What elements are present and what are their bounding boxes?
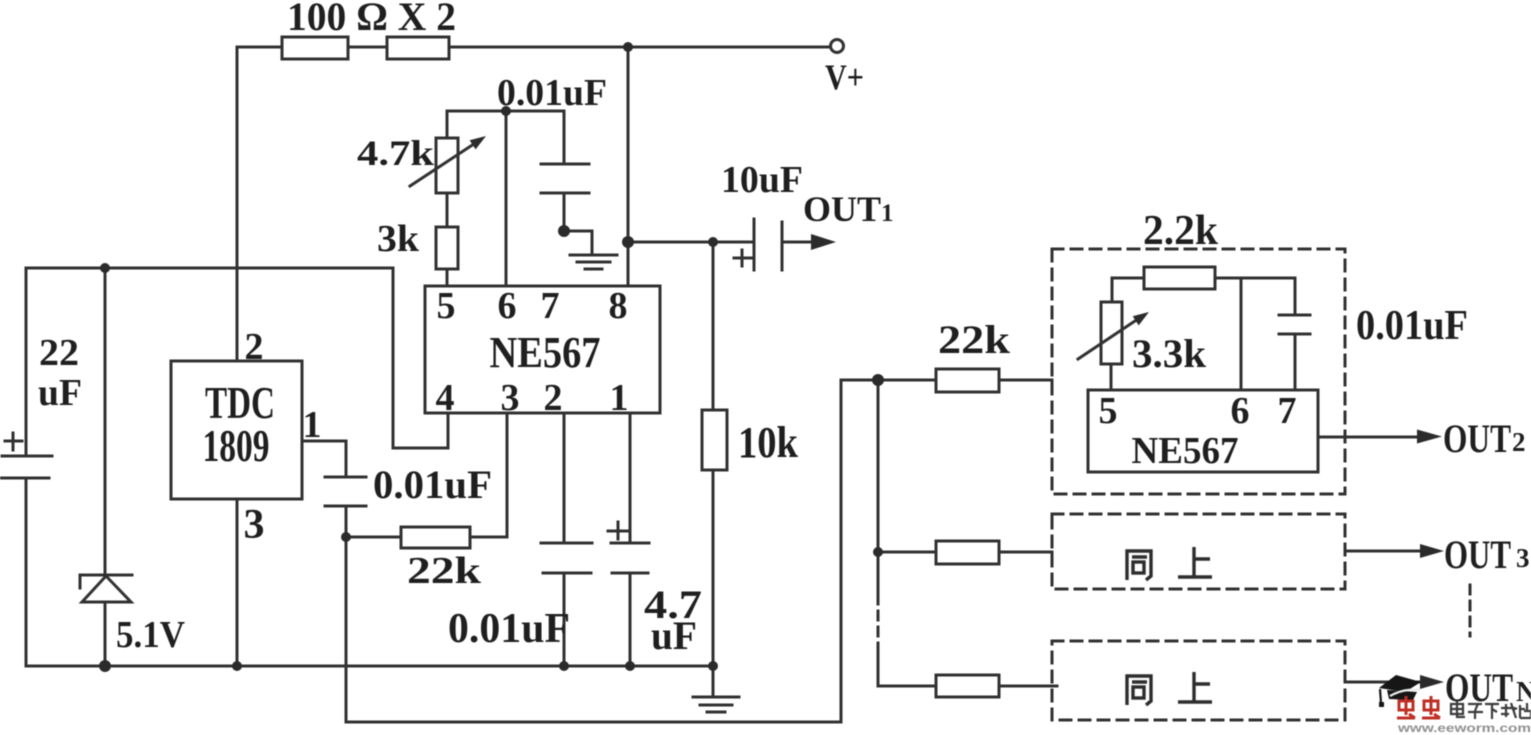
svg-text:1809: 1809 xyxy=(203,420,270,471)
svg-text:3.3k: 3.3k xyxy=(1132,331,1207,376)
svg-text:22: 22 xyxy=(39,332,79,374)
svg-text:10uF: 10uF xyxy=(721,159,803,201)
svg-text:6: 6 xyxy=(1231,390,1250,432)
svg-text:V+: V+ xyxy=(825,57,864,97)
svg-text:4: 4 xyxy=(436,377,455,419)
svg-text:N: N xyxy=(1516,677,1531,708)
svg-text:7: 7 xyxy=(541,285,560,327)
svg-text:22k: 22k xyxy=(938,317,1011,362)
svg-text:2: 2 xyxy=(245,326,264,368)
svg-text:3k: 3k xyxy=(377,218,420,260)
svg-text:7: 7 xyxy=(1278,390,1297,432)
svg-text:2.2k: 2.2k xyxy=(1143,208,1219,254)
svg-text:1: 1 xyxy=(610,377,629,419)
svg-text:1: 1 xyxy=(303,404,322,446)
svg-text:5: 5 xyxy=(437,285,456,327)
svg-text:uF: uF xyxy=(38,372,82,414)
svg-text:3: 3 xyxy=(501,377,520,419)
svg-text:5: 5 xyxy=(1099,390,1118,432)
svg-text:OUT: OUT xyxy=(1444,532,1511,577)
svg-text:uF: uF xyxy=(651,613,697,658)
svg-text:NE567: NE567 xyxy=(490,328,601,377)
svg-text:8: 8 xyxy=(609,285,628,327)
svg-text:3: 3 xyxy=(1516,543,1530,573)
svg-text:3: 3 xyxy=(244,502,265,548)
svg-text:NE567: NE567 xyxy=(1132,430,1239,472)
svg-text:6: 6 xyxy=(498,285,517,327)
svg-text:2: 2 xyxy=(544,377,563,419)
svg-text:0.01uF: 0.01uF xyxy=(448,606,570,652)
svg-text:10k: 10k xyxy=(738,418,798,467)
svg-text:OUT: OUT xyxy=(1443,416,1511,461)
svg-text:5.1V: 5.1V xyxy=(116,614,186,656)
svg-text:0.01uF: 0.01uF xyxy=(1356,303,1468,349)
svg-text:0.01uF: 0.01uF xyxy=(497,72,607,114)
svg-text:0.01uF: 0.01uF xyxy=(373,462,492,507)
svg-text:2: 2 xyxy=(1512,427,1526,457)
svg-text:OUT1: OUT1 xyxy=(803,189,894,229)
svg-text:100 Ω X 2: 100 Ω X 2 xyxy=(287,0,456,39)
svg-text:4.7k: 4.7k xyxy=(357,133,434,173)
svg-text:www.eeworm.com: www.eeworm.com xyxy=(1397,721,1531,735)
svg-text:22k: 22k xyxy=(407,550,482,592)
